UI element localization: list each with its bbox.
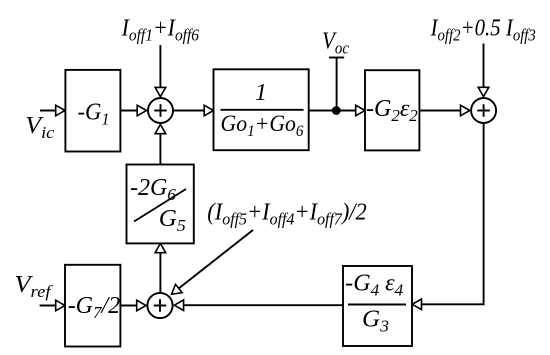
svg-text:1: 1 — [255, 80, 267, 106]
svg-text:Go1+Go6: Go1+Go6 — [221, 111, 304, 140]
